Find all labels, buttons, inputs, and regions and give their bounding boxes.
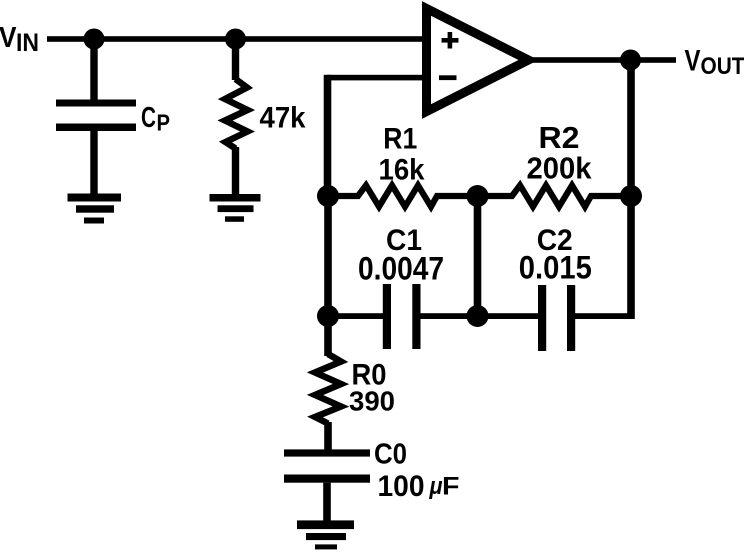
capacitor CP value label: [141, 102, 170, 136]
resistor 47k: [225, 79, 248, 149]
svg-text:V: V: [685, 44, 701, 77]
svg-text:μ: μ: [429, 473, 443, 500]
wire from CP tap node down to CP: [90, 39, 97, 100]
wire from 47k tap node down to resistor: [232, 39, 239, 80]
wire left rail R1 node to C1 node: [324, 196, 332, 316]
capacitor C1: [383, 284, 421, 349]
capacitor CP: [56, 100, 136, 132]
ground below 47k: [210, 194, 261, 222]
svg-text:0.0047: 0.0047: [358, 250, 444, 286]
ground below C0: [297, 520, 354, 549]
svg-text:390: 390: [349, 386, 395, 417]
svg-text:C0: C0: [374, 439, 407, 471]
node junction dot R2 right: [620, 185, 642, 207]
op-amp U1: [427, 9, 529, 112]
svg-text:0.015: 0.015: [519, 250, 592, 286]
svg-text:47k: 47k: [260, 102, 306, 135]
svg-text:16k: 16k: [379, 154, 425, 187]
wire C1 left connection: [328, 313, 384, 319]
wire right feedback rail vertical (output node down to C2): [627, 60, 635, 319]
node junction dot R1 left: [317, 185, 339, 207]
wire top input wire VIN to op-amp + input: [47, 36, 426, 42]
svg-text:F: F: [442, 473, 460, 501]
wire from 47k to ground: [232, 147, 239, 195]
svg-text:OUT: OUT: [701, 53, 744, 80]
wire from CP to ground: [90, 131, 97, 194]
capacitor C0 value label: [378, 470, 460, 503]
node junction dot at 47k tap: [225, 29, 246, 50]
ground below CP: [68, 194, 122, 224]
svg-text:V: V: [0, 22, 17, 54]
svg-text:100: 100: [378, 470, 425, 503]
node VIN label: [0, 22, 39, 57]
wire C0 to ground: [323, 483, 331, 522]
svg-text:C: C: [141, 102, 156, 134]
svg-text:IN: IN: [16, 29, 39, 57]
capacitor C0: [284, 449, 370, 482]
svg-text:R1: R1: [383, 123, 417, 156]
node junction dot C1 left (R0 tap): [317, 305, 339, 327]
wire left feedback rail vertical (inverting input down to R1 node): [324, 75, 332, 197]
node junction dot R1/R2 middle: [467, 185, 489, 207]
resistor R0: [315, 354, 341, 424]
svg-text:P: P: [157, 110, 171, 136]
node junction dot at op-amp output: [620, 50, 641, 71]
wire op-amp inverting input: [327, 75, 427, 81]
capacitor C2: [538, 285, 575, 351]
svg-text:200k: 200k: [527, 151, 593, 186]
resistor R1 with connecting wires: [328, 185, 477, 206]
node junction dot at CP tap: [84, 29, 105, 50]
node junction dot C1/C2 middle: [467, 305, 489, 327]
wire left rail C1 node down to R0: [324, 316, 332, 356]
wire C2 right plate to right rail: [575, 313, 633, 319]
resistor R2 with connecting wires: [477, 185, 631, 206]
wire op-amp output to VOUT: [527, 57, 676, 63]
node VOUT label: [685, 44, 744, 80]
wire C1 right to middle node to C2 left: [420, 313, 539, 319]
wire R0 to C0: [324, 422, 332, 450]
wire middle rail R node to C node: [474, 196, 482, 316]
